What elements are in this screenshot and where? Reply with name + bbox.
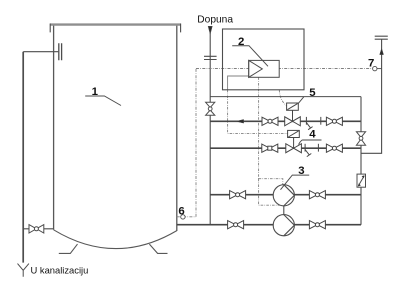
wire between pumps (283, 206, 285, 215)
svg-text:Dopuna: Dopuna (197, 15, 233, 26)
label 3 (281, 165, 310, 190)
svg-text:U kanalizaciju: U kanalizaciju (31, 264, 89, 275)
tank left wall (53, 26, 55, 230)
wire control feed inside unit 2 (228, 76, 249, 90)
node 7 (373, 66, 377, 70)
strainer F1 (306, 123, 312, 130)
label 2 (232, 36, 268, 66)
svg-text:4: 4 (309, 129, 316, 141)
tank right leg (149, 244, 167, 253)
valve V21 (262, 144, 278, 152)
tank dished bottom (54, 230, 177, 249)
flange tick (305, 117, 307, 125)
node 6 (181, 215, 185, 219)
wire dopuna vertical upper (209, 33, 211, 225)
arrow down (208, 26, 212, 34)
wire 6-7 vertical riser (195, 69, 197, 217)
tank lid (50, 23, 181, 25)
row 3 pump branch (210, 191, 361, 199)
label 5 leader (298, 97, 303, 104)
flange tick (317, 144, 319, 152)
wire row4 right (294, 224, 361, 226)
row 2 return pipe (210, 130, 361, 156)
tank T1 vessel (50, 24, 181, 254)
signal line sensors 6/7 (dash-dot) (177, 69, 372, 217)
wire control to actuator M4 (228, 90, 288, 134)
control lines from unit 2 (dash-dot) (228, 76, 288, 205)
flange tick (320, 117, 322, 125)
wire vent vertical (361, 39, 382, 153)
label 1 (85, 86, 121, 106)
overflow pipe from tank (18, 43, 62, 276)
right collector column (356, 97, 365, 225)
valve V11 (262, 117, 278, 125)
wire left drain riser (22, 52, 24, 263)
valve V32 (309, 191, 325, 199)
wire 7 horizontal (196, 68, 372, 70)
valve V-right (vertical) (356, 132, 365, 146)
safety valve SV1 (206, 102, 215, 115)
wire right vertical (360, 97, 362, 225)
funnel to sewer (18, 264, 29, 277)
tank right wall (176, 26, 178, 231)
unit 2 (control box) (223, 29, 305, 90)
vent line (361, 36, 388, 153)
valve V31 (230, 191, 246, 199)
pump P2 (273, 206, 294, 236)
flange tick (304, 144, 306, 152)
wire row4 left (177, 224, 273, 226)
tank left leg (59, 244, 78, 253)
row 4 pump branch (177, 221, 361, 229)
wire overflow horizontal (23, 51, 58, 53)
svg-text:7: 7 (368, 57, 374, 69)
wire row1 (210, 120, 361, 122)
valve V42 (309, 221, 325, 229)
svg-text:5: 5 (309, 87, 316, 99)
wire control to pumps (259, 77, 283, 205)
valve V22 (326, 144, 342, 152)
motor valve M4 (286, 138, 302, 153)
wire row3 right (294, 194, 361, 196)
label 4 leader (299, 140, 322, 145)
actuator M4 (288, 130, 300, 137)
overflow standpipe bars (59, 43, 62, 60)
make-up water line (Dopuna) (204, 26, 217, 224)
vent cap bars (375, 36, 388, 39)
burner/pump symbol in unit 2 (249, 60, 280, 77)
pipe-break symbol (204, 56, 217, 59)
row 1 supply pipe (210, 97, 361, 130)
motor valve M5 (285, 110, 301, 126)
pump P1 (273, 185, 294, 206)
wire main upper (210, 96, 361, 98)
svg-text:6: 6 (178, 205, 184, 217)
valve V12 (326, 117, 342, 125)
actuator M5 (287, 103, 299, 110)
wire drain horizontal (23, 228, 53, 230)
valve V-drain (29, 225, 44, 233)
strainer F2 (305, 150, 311, 157)
flow arrow left (236, 120, 243, 124)
wire 6 horizontal (177, 216, 196, 218)
wire row2 (210, 147, 361, 149)
balancing valve BV (357, 174, 366, 187)
wire row3 left (210, 194, 273, 196)
wire control to actuator M5 (curved) (279, 90, 286, 106)
valve V41 (228, 221, 244, 229)
vent arrow up (380, 48, 384, 54)
